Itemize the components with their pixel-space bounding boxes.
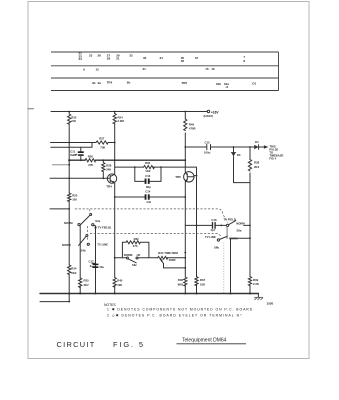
switch S6c blade <box>128 259 136 263</box>
svg-text:R27: R27 <box>99 137 105 141</box>
svg-text:D1: D1 <box>252 82 256 86</box>
switch S6c contacts <box>126 257 128 259</box>
wire: C14 row y=197 <box>115 196 186 198</box>
wire: S6b NORM row y=238.3 <box>231 237 251 239</box>
switch S4b blade <box>79 236 86 245</box>
edge connector band line 4 <box>51 90 279 92</box>
svg-text:4p7: 4p7 <box>211 228 216 232</box>
svg-text:2.2M: 2.2M <box>118 119 125 123</box>
svg-text:9a: 9a <box>98 81 102 85</box>
page border frame <box>28 2 309 359</box>
wire: TR4 emitter down x=114.7 <box>114 183 116 293</box>
capacitor C17 <box>92 263 96 267</box>
diode D3 <box>231 147 235 183</box>
capacitor C11 <box>80 147 82 160</box>
switch S4a contact NORM <box>78 224 80 226</box>
wire: row B collector y=167.1 <box>115 167 197 225</box>
switch S4a blade <box>80 215 90 225</box>
svg-text:16: 16 <box>211 67 215 71</box>
arrow to timebase <box>263 146 267 148</box>
svg-text:6K8: 6K8 <box>178 282 184 286</box>
switch S4a blade tip contact <box>90 214 92 216</box>
edge connector band line 1 <box>51 51 279 53</box>
wire: +16V top rail <box>51 111 207 113</box>
svg-text:75K: 75K <box>100 146 105 150</box>
wire: TR5 base spine x=196.5 down <box>194 176 197 294</box>
wire: R38 vertical x=250 <box>249 147 251 294</box>
wire: C11 row y=147.2 <box>51 143 92 148</box>
switch S6a-S6b link <box>226 227 228 239</box>
resistor R37 <box>195 277 198 286</box>
svg-text:24: 24 <box>79 57 83 61</box>
svg-text:27K: 27K <box>88 163 93 167</box>
capacitor C11 plates (dark) <box>78 151 84 156</box>
resistor R26 <box>85 159 96 162</box>
svg-text:S6c: S6c <box>132 263 137 267</box>
svg-text:2.2K: 2.2K <box>253 282 259 286</box>
svg-text:100: 100 <box>72 197 77 201</box>
wire: S4 common x=80.2 <box>79 225 81 293</box>
svg-text:37: 37 <box>195 56 199 60</box>
svg-text:S4a: S4a <box>95 219 100 223</box>
svg-text:100u: 100u <box>204 151 211 155</box>
wire: mid rail row A y=160.2 <box>69 159 185 161</box>
resistor R39 <box>248 277 251 286</box>
capacitor C15 <box>207 145 211 150</box>
wire: left stub y=164.7 <box>52 164 69 166</box>
svg-text:R26: R26 <box>88 155 94 159</box>
resistor R46 <box>184 119 187 131</box>
resistor R22 <box>68 114 71 124</box>
svg-text:(4 TV FIELD): (4 TV FIELD) <box>95 226 112 230</box>
wire: R46 spine x=185.3 <box>184 112 186 294</box>
svg-text:C17: C17 <box>89 259 95 263</box>
resistor R32 loop <box>122 241 148 258</box>
svg-text:S6a: S6a <box>237 229 242 233</box>
svg-text:HF: HF <box>137 253 141 257</box>
svg-text:R30: R30 <box>145 161 151 165</box>
svg-text:31: 31 <box>116 57 120 61</box>
svg-text:NORM: NORM <box>64 221 73 225</box>
svg-text:NORM: NORM <box>236 222 245 226</box>
svg-text:6u8F: 6u8F <box>70 153 77 157</box>
resistor R36 <box>184 277 187 286</box>
svg-text:3b: 3b <box>92 81 96 85</box>
svg-text:S4b: S4b <box>81 248 86 252</box>
svg-text:1520: 1520 <box>267 302 274 306</box>
wire: S4a contact to C17 line <box>94 225 96 293</box>
wire: wiper row y=267.9 <box>164 264 186 268</box>
svg-text:CIRCUIT: CIRCUIT <box>57 340 96 349</box>
edge connector band line 2 <box>51 65 279 67</box>
svg-text:36: 36 <box>181 59 185 63</box>
svg-text:C13: C13 <box>145 174 151 178</box>
bottom rail 0V <box>40 293 258 295</box>
svg-text:34b: 34b <box>216 82 221 86</box>
wire: R32 pot row y=257.8 <box>115 257 186 259</box>
resistor R34 <box>68 265 71 275</box>
wire: left spine x=69.2 <box>68 112 70 294</box>
svg-text:NORM: NORM <box>62 243 71 247</box>
switch S6a contact <box>227 224 229 226</box>
resistor R25 <box>68 193 71 201</box>
svg-text:1 ✱ DENOTES COMPONENTS NOT MOU: 1 ✱ DENOTES COMPONENTS NOT MOUNTED ON P.… <box>107 308 253 312</box>
svg-text:270: 270 <box>133 244 138 248</box>
svg-text:C15: C15 <box>205 141 211 145</box>
svg-text:D3: D3 <box>237 153 241 157</box>
svg-text:C16: C16 <box>211 218 217 222</box>
dashed linkage S4a-S6a y=208.9 <box>75 209 228 294</box>
svg-text:2 ◇✱ DENOTES P.C. BOARD EYELET: 2 ◇✱ DENOTES P.C. BOARD EYELET OR TERMIN… <box>107 314 242 318</box>
svg-text:24K: 24K <box>106 167 111 171</box>
svg-text:34: 34 <box>160 56 164 60</box>
svg-text:C11: C11 <box>70 150 75 154</box>
svg-text:2K7: 2K7 <box>84 283 90 287</box>
svg-text:TV FIELD: TV FIELD <box>224 217 236 221</box>
svg-text:10K: 10K <box>117 283 122 287</box>
svg-text:6K2: 6K2 <box>71 271 77 275</box>
svg-text:560R: 560R <box>169 258 176 262</box>
band pin numbers row 2 <box>83 67 215 72</box>
svg-text:82p: 82p <box>146 185 151 189</box>
wire: rail to ground <box>257 294 259 298</box>
svg-text:28: 28 <box>107 57 111 61</box>
svg-text:D4: D4 <box>255 140 259 144</box>
svg-text:TR5: TR5 <box>175 175 181 179</box>
switch S6b contact <box>217 239 219 241</box>
resistor R35 <box>79 278 82 288</box>
band component position labels row 3 <box>92 81 257 90</box>
svg-text:S6b: S6b <box>214 246 219 250</box>
wire: C15 row y=147 <box>185 146 250 148</box>
wire: D3/R38 bottom row y=182.6 <box>234 182 251 184</box>
svg-text:240: 240 <box>71 119 76 123</box>
wire: C16 row y=225.4 <box>185 224 250 226</box>
svg-text:NORM: NORM <box>229 237 238 241</box>
svg-text:15: 15 <box>205 67 209 71</box>
svg-text:10K: 10K <box>200 282 205 286</box>
svg-text:10u: 10u <box>99 265 104 269</box>
wire: R27 row y=142.5 <box>51 142 115 144</box>
svg-text:34a: 34a <box>224 82 229 86</box>
svg-text:21: 21 <box>143 67 147 71</box>
switch S4b contact TV LINE <box>87 243 89 245</box>
pot wiper <box>161 260 164 264</box>
svg-text:26: 26 <box>98 54 102 58</box>
switch S4b blade tip contact <box>86 235 88 237</box>
edge connector band right closing vertical <box>278 52 280 91</box>
capacitor C16 <box>213 223 216 229</box>
svg-text:NOTES: NOTES <box>104 303 116 307</box>
svg-text:470R: 470R <box>189 127 196 131</box>
wire: left stub y=208.9 <box>50 208 69 210</box>
capacitor C17 plates (dark) <box>93 264 99 268</box>
svg-text:23: 23 <box>89 54 93 58</box>
edge connector band line 3 <box>51 77 279 79</box>
svg-text:FIG. 5: FIG. 5 <box>113 340 145 349</box>
capacitor C11 plus sign <box>75 154 77 156</box>
transistor TR5 <box>184 172 194 182</box>
svg-text:TR4: TR4 <box>107 81 113 85</box>
svg-text:R32: R32 <box>134 237 140 241</box>
node +16V terminal <box>207 110 209 112</box>
switch S4a right contact <box>92 224 94 226</box>
svg-text:R34 TIME REM: R34 TIME REM <box>158 251 178 255</box>
capacitor C17 plus sign <box>90 265 92 267</box>
wire: R24 spine x=114.7 <box>114 112 116 175</box>
svg-text:32: 32 <box>129 54 133 58</box>
resistor R28 <box>102 160 105 178</box>
capacitor C13 plates (dark) <box>145 179 150 184</box>
transistor TR4 <box>107 174 116 183</box>
svg-text:Telequipment DM64: Telequipment DM64 <box>182 337 227 343</box>
capacitor C14 plates (dark) <box>145 194 150 199</box>
wire: S6b common down x=230.5 <box>230 238 232 293</box>
band pin numbers row 1 <box>79 51 246 63</box>
svg-text:TV LINE: TV LINE <box>205 235 216 239</box>
svg-text:1n0: 1n0 <box>146 200 151 204</box>
switch S6a blade <box>229 221 236 225</box>
ground symbol <box>254 297 263 300</box>
svg-text:NORM: NORM <box>124 253 133 257</box>
switch S6b blade <box>220 236 228 239</box>
capacitor C13 loop <box>135 167 161 181</box>
svg-text:TV LINE: TV LINE <box>97 243 108 247</box>
diode D4 <box>250 145 263 149</box>
svg-text:R34: R34 <box>71 266 77 270</box>
wire: below-rail stub y=301.6 <box>40 294 69 302</box>
resistor R27 <box>96 141 108 144</box>
resistor R30 <box>144 166 155 169</box>
trig pulse destination text <box>269 145 283 161</box>
svg-text:TR5: TR5 <box>181 81 187 85</box>
resistor R40 <box>113 278 116 288</box>
svg-text:9b: 9b <box>127 81 131 85</box>
wire: left border stub <box>28 108 34 110</box>
wire: TR4 base row y=178.3 <box>50 177 107 179</box>
svg-text:12: 12 <box>96 67 100 71</box>
svg-text:C14: C14 <box>145 190 151 194</box>
svg-text:(H2/16): (H2/16) <box>204 114 213 118</box>
svg-text:2K2: 2K2 <box>254 165 260 169</box>
svg-text:1K2: 1K2 <box>145 169 151 173</box>
potentiometer R34b <box>158 256 168 259</box>
svg-text:FIG 4: FIG 4 <box>269 157 276 161</box>
svg-text:33: 33 <box>143 56 147 60</box>
resistor R38 <box>248 160 251 171</box>
resistor R24 <box>113 114 116 124</box>
svg-text:TR4: TR4 <box>106 185 112 189</box>
